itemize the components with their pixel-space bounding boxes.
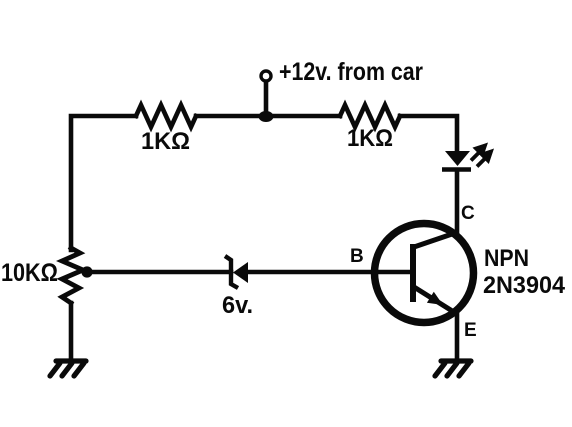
wire LED cathode down to transistor collector [455, 171, 460, 232]
svg-text:C: C [461, 203, 475, 224]
zener diode D1 6v triangle [233, 262, 248, 283]
transistor Q1 collector line [414, 232, 458, 247]
svg-text:10KΩ: 10KΩ [1, 259, 58, 287]
LED D2 cathode bar [442, 167, 471, 171]
wire top horizontal left segment [71, 116, 136, 250]
junction dot at supply tap [259, 111, 274, 122]
zener diode D1 cathode bar with bends [225, 256, 238, 288]
svg-text:+12v. from car: +12v. from car [279, 58, 423, 86]
wire pot bottom to ground [69, 303, 74, 361]
LED light arrow 1 [471, 146, 485, 161]
ground left [50, 361, 86, 376]
svg-text:NPN: NPN [484, 245, 529, 272]
resistor R2 1K zigzag [340, 105, 400, 127]
LED D2 triangle [445, 151, 470, 166]
terminal +12v open circle [261, 71, 271, 81]
junction dot pot wiper [81, 266, 92, 277]
transistor Q1 base bar [410, 244, 416, 302]
ground right [435, 361, 471, 376]
wire top horizontal middle segment [196, 114, 340, 119]
LED light arrow 2 [477, 152, 491, 167]
svg-text:6v.: 6v. [222, 292, 253, 319]
wire base horizontal right of zener [248, 270, 413, 275]
resistor R1 1K zigzag [136, 105, 196, 127]
transistor Q1 emitter line [414, 287, 457, 314]
wire emitter down to ground [455, 314, 460, 361]
svg-text:B: B [350, 246, 364, 267]
transistor Q1 circle [375, 224, 474, 323]
svg-text:1KΩ: 1KΩ [347, 125, 393, 152]
svg-text:1KΩ: 1KΩ [141, 128, 190, 155]
svg-text:E: E [464, 320, 477, 341]
svg-text:2N3904: 2N3904 [483, 272, 566, 299]
wire supply stub from terminal to top wire [264, 81, 269, 116]
transistor Q1 emitter arrowhead [427, 292, 443, 305]
wire top horizontal right segment and corner down to LED [400, 116, 457, 151]
potentiometer R3 10K zigzag [62, 248, 83, 303]
wire base horizontal left of zener [87, 270, 231, 275]
